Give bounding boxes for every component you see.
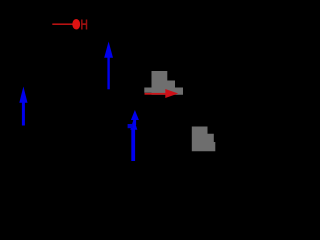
reagent label H2 (lower right, gray block silhouette) (192, 127, 216, 152)
reaction arrow A1 (top, blue, pointing up) (104, 42, 113, 90)
red arrow head / wedge (mid right) (165, 89, 178, 98)
red arrow shaft (mid right) (145, 93, 167, 95)
left spur on center arrow column (128, 124, 133, 128)
reagent label H2 (upper right, gray block silhouette) (144, 71, 183, 95)
reaction arrow A2 (left, blue, pointing up) (19, 87, 27, 126)
reaction arrow A4 (center lower, blue, pointing up, long shaft) (130, 119, 137, 162)
bond to hydroxyl (red segment, top molecule) (52, 23, 72, 25)
hydroxyl O fill (solid appearance) (72, 19, 80, 29)
reaction arrow A3 (center upper, blue, pointing up) (131, 110, 139, 125)
